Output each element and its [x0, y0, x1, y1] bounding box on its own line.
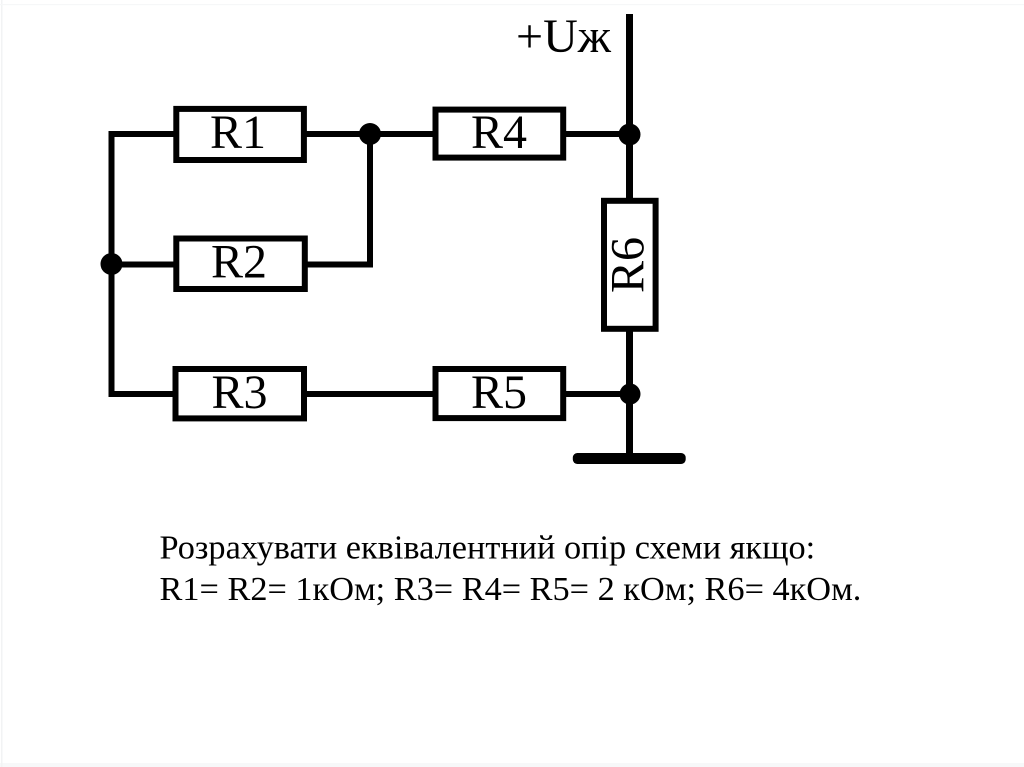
resistor R1 — [176, 106, 304, 160]
wire: R2 right up to node between R1 and R4 — [306, 134, 370, 265]
svg-text:R2: R2 — [211, 236, 267, 289]
node A: junction of R1 output and R2 output — [359, 123, 381, 145]
wire: left node to R2 left — [112, 262, 176, 268]
node B: left rail junction at R2 input — [101, 253, 123, 275]
wire: R4 right to top-right node — [565, 131, 630, 137]
resistor R4 — [436, 106, 564, 159]
resistor R5 — [436, 366, 564, 419]
bottom edge strip — [0, 763, 1024, 767]
resistor R6 (vertical) — [602, 201, 656, 329]
wire: R5 right to bottom node — [565, 391, 630, 397]
faint left edge line — [1, 0, 3, 767]
ground — [573, 453, 686, 464]
node D: junction R5 / R6 bottom / ground — [620, 384, 641, 405]
svg-text:R1= R2= 1кОм; R3= R4= R5= 2 кО: R1= R2= 1кОм; R3= R4= R5= 2 кОм; R6= 4кО… — [160, 570, 862, 608]
svg-text:R3: R3 — [211, 366, 267, 419]
resistor R2 — [176, 236, 304, 290]
node C: junction R4 / supply rail / R6 top — [619, 124, 641, 146]
wire: R1 right to R4 left — [306, 131, 434, 137]
wire: +U supply vertical down to R6 top — [626, 14, 633, 199]
faint top edge line — [0, 4, 1024, 5]
wire: R3 right to R5 left — [306, 391, 434, 397]
svg-text:R5: R5 — [471, 366, 527, 419]
resistor R3 — [176, 366, 305, 419]
wire: R6 bottom down to ground — [626, 331, 633, 457]
svg-text:+Uж: +Uж — [516, 10, 612, 63]
svg-text:R1: R1 — [210, 106, 266, 159]
svg-text:R6: R6 — [602, 237, 655, 293]
wire: left rail from R1 row down to R3 row — [112, 134, 176, 394]
svg-text:Розрахувати еквівалентний опір: Розрахувати еквівалентний опір схеми якщ… — [160, 529, 816, 567]
svg-text:R4: R4 — [471, 106, 527, 159]
